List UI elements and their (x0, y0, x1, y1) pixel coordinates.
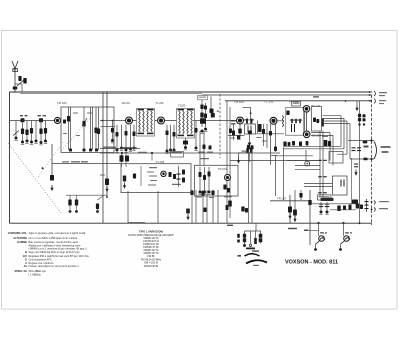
svg-text:Regolare 950 e tagliTa formati: Regolare 950 e tagliTa formati uscit BT … (29, 254, 90, 258)
svg-text:T1 102: T1 102 (264, 100, 274, 104)
svg-text:T1 202: T1 202 (156, 101, 165, 105)
svg-text:GAMME: GAMME (17, 240, 27, 244)
svg-text:VOXSON - MOD. 811: VOXSON - MOD. 811 (285, 259, 339, 265)
svg-text:TR 103: TR 103 (234, 100, 244, 104)
svg-text:Fissare raccogliere su veny: Fissare raccogliere su venyl punti ascol… (29, 264, 79, 268)
svg-text:B II: B II (23, 254, 27, 258)
svg-text:T1 203: T1 203 (156, 160, 165, 164)
svg-text:COMANDI+VOL: COMANDI+VOL (8, 231, 28, 235)
svg-text:Agite in gli piano gitta,: Agite in gli piano gitta, moti giurene 2… (29, 231, 86, 235)
svg-text:TR 104: TR 104 (218, 167, 227, 171)
svg-text:JA: JA (24, 264, 27, 268)
svg-text:Regime ove i elettrico: Regime ove i elettrico (29, 261, 54, 265)
svg-text:i MINIM c.a in 1 versione di g: i MINIM c.a in 1 versione di giu microte… (29, 247, 88, 251)
svg-text:Commutazione AFC: Commutazione AFC (29, 257, 52, 261)
svg-text:B: B (25, 250, 27, 254)
svg-text:501+1BEE npn: 501+1BEE npn (29, 269, 47, 273)
svg-text:1R 201: 1R 201 (122, 101, 131, 105)
svg-text:TIPO 1 VARIAZIONI: TIPO 1 VARIAZIONI (139, 230, 163, 234)
svg-text:A: A (25, 261, 27, 265)
svg-text:TR 101: TR 101 (57, 101, 67, 105)
svg-text:TR 107: TR 107 (277, 197, 287, 201)
svg-text:SPIRA. De: SPIRA. De (14, 269, 27, 273)
svg-text:MOM=163 M: MOM=163 M (144, 265, 159, 268)
svg-text:G: G (25, 257, 27, 261)
svg-text:Onn i in cui MFS 1.258 tipie: Onn i in cui MFS 1.258 tipies di ric met… (29, 236, 78, 240)
svg-text:ALTAZONE: ALTAZONE (13, 236, 27, 240)
svg-text:I 1 AB/Bob: I 1 AB/Bob (29, 273, 42, 277)
svg-text:T1203: T1203 (178, 104, 186, 108)
svg-text:Segn ann MFR dal 1EG in: Segn ann MFR dal 1EG in segn di 51A7 pun (29, 250, 81, 254)
